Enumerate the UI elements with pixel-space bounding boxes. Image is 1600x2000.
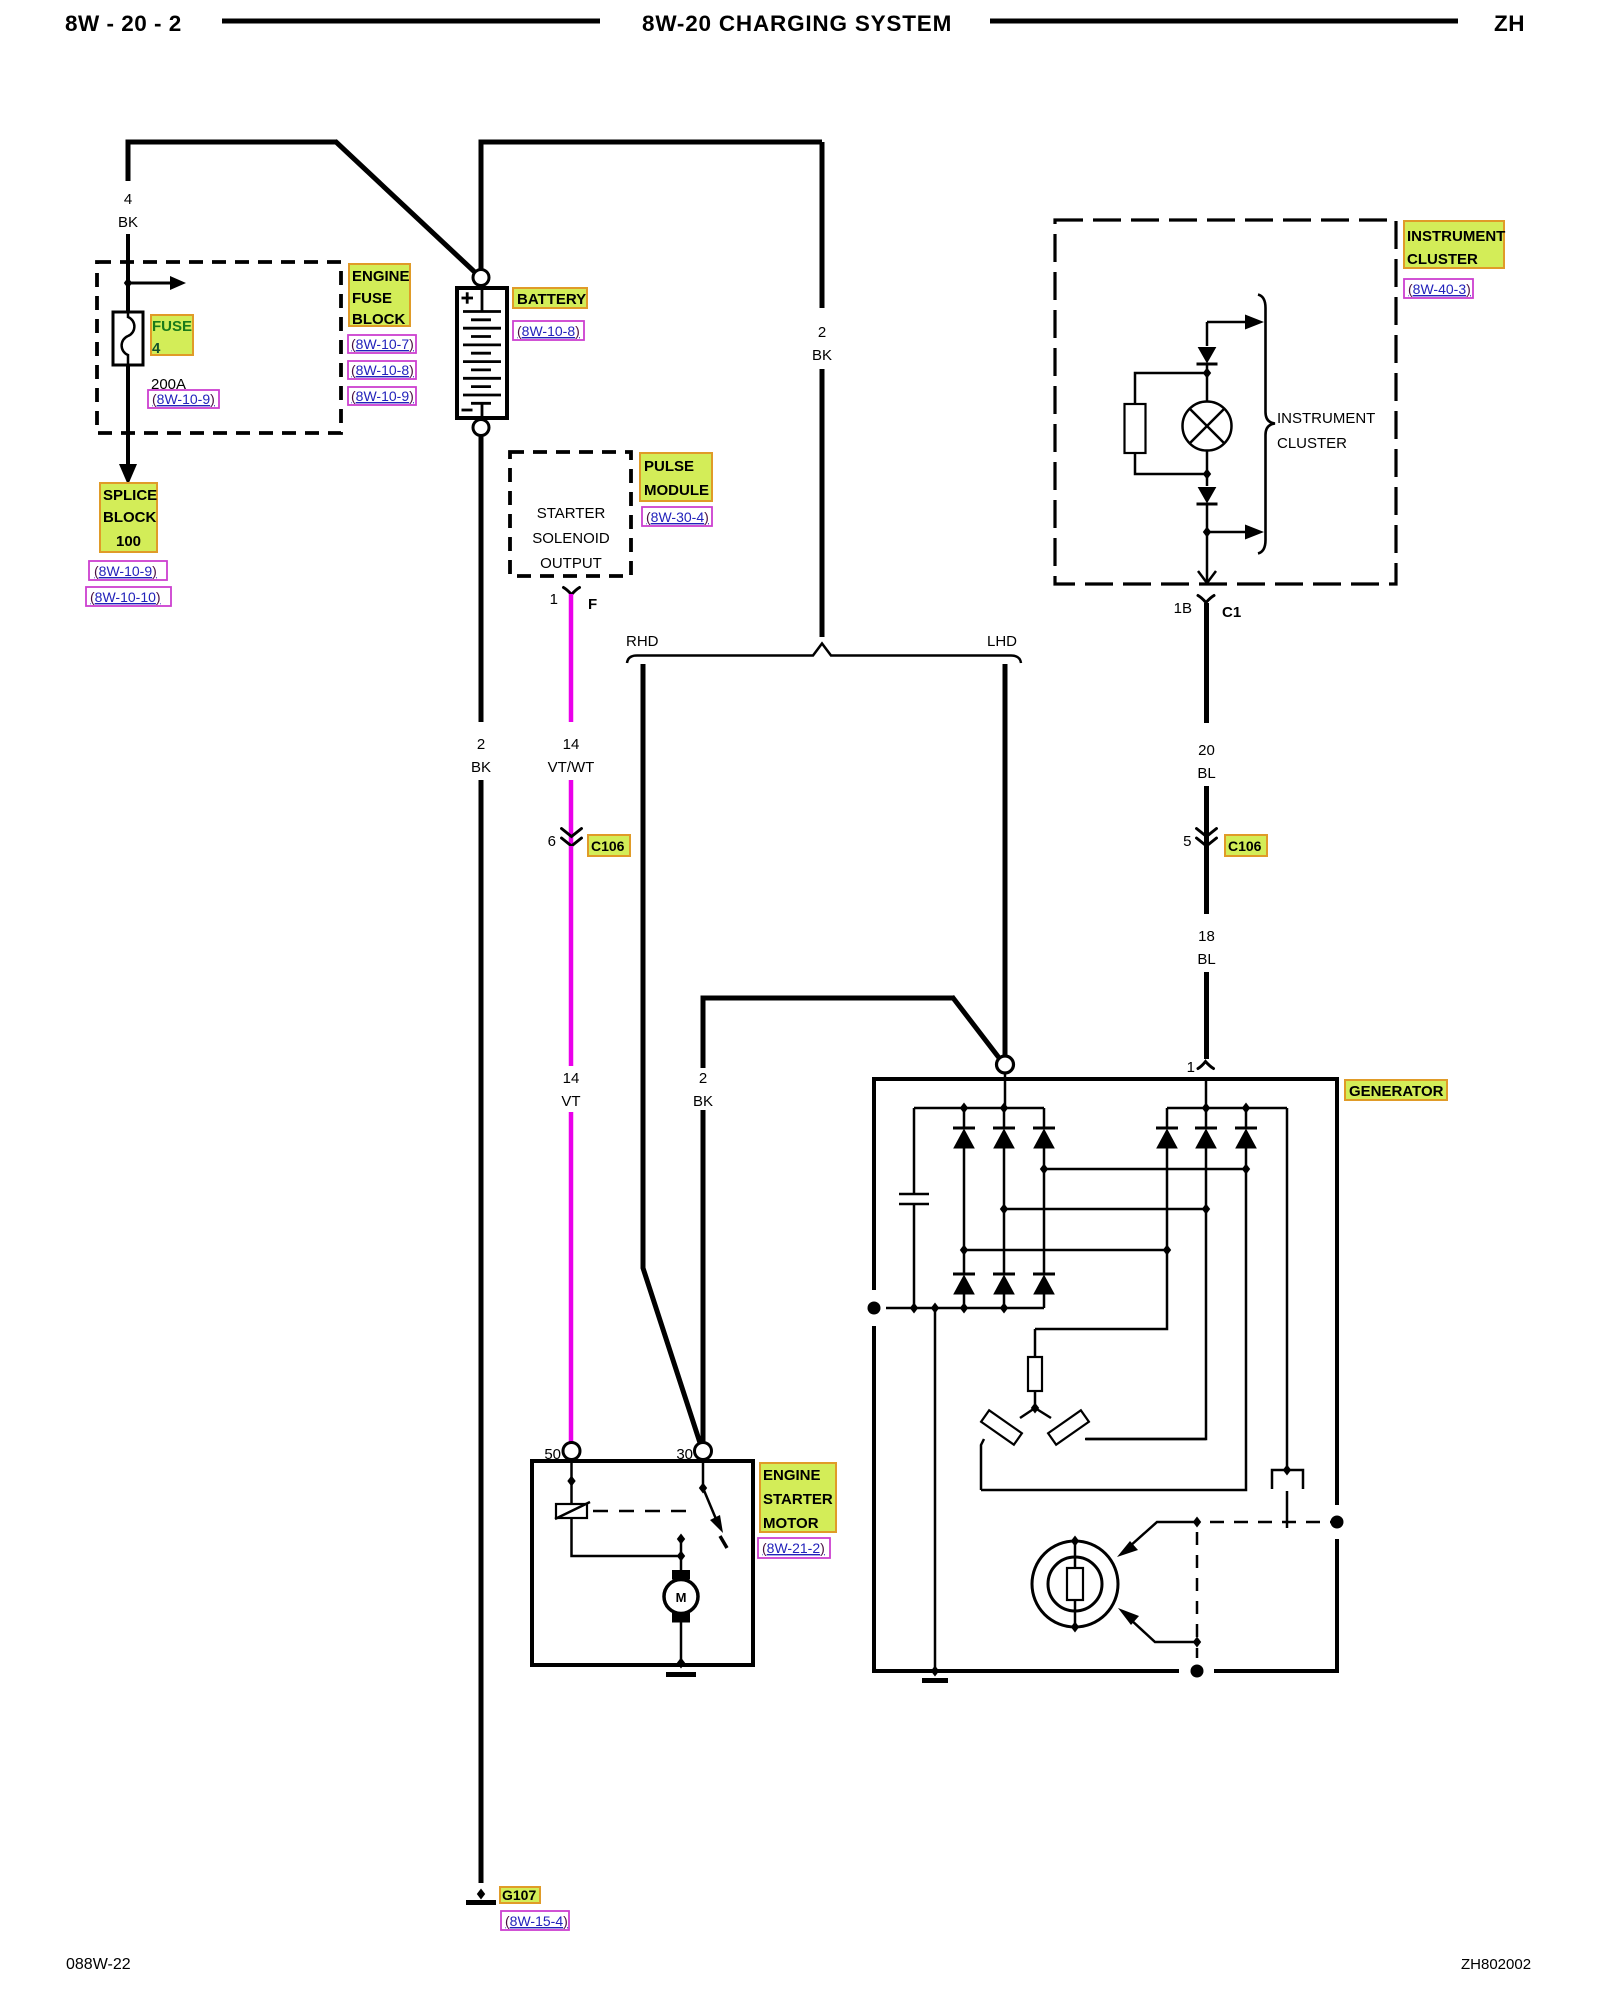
diode main upper 1 [953,1128,975,1148]
stator winding 1 [1020,1408,1035,1418]
svg-text:(8W-10-9): (8W-10-9) [351,388,414,404]
svg-text:088W-22: 088W-22 [66,1956,131,1973]
svg-text:(8W-10-7): (8W-10-7) [351,336,414,352]
connector C106 chevrons [562,829,582,847]
connector C1 symbol [1198,596,1214,603]
svg-text:FUSE: FUSE [352,290,392,307]
wire 2 BK to brace lower [820,369,825,637]
wire 18 BL upper [1204,846,1209,914]
svg-text:VT: VT [561,1093,580,1110]
node phase 1 tap [960,1245,968,1256]
brush upper arrow [1129,1522,1197,1547]
label C106 [588,835,630,856]
svg-text:BLOCK: BLOCK [103,509,156,526]
diode main lower 3 [1033,1274,1055,1294]
svg-text:ENGINE: ENGINE [352,268,410,285]
rectifier ground bus [886,1307,1044,1310]
node phase 2 tap [1000,1204,1008,1215]
pulse module box [510,452,631,576]
svg-text:CLUSTER: CLUSTER [1277,435,1347,452]
wire RHD drop [643,664,702,1449]
svg-text:BK: BK [471,759,491,776]
wire regulator dashed horizontal [1210,1521,1331,1524]
wire phase 1 link [964,1249,1167,1252]
node rotor bottom [1071,1622,1079,1633]
rotor field coil [1032,1541,1118,1627]
wire terminal 30 to switch [702,1459,705,1488]
wire to lamp [1206,364,1209,402]
node phase 3 tap [1040,1164,1048,1175]
node junction [1193,1637,1201,1648]
relay dashed link [593,1510,697,1513]
label FUSE 4 [151,315,193,355]
wire to output [1206,504,1209,582]
wire pin1 to field bus [1205,1080,1208,1108]
link 8W-10-9 splice [89,561,167,580]
svg-text:SPLICE: SPLICE [103,487,157,504]
svg-text:BK: BK [118,214,138,231]
wire motor to ground [680,1622,683,1663]
node junction [677,1551,685,1562]
node splice junction [124,278,132,289]
wire brush contact [1286,1491,1289,1528]
wire 14 VT lower [569,1112,574,1450]
svg-text:(8W-30-4): (8W-30-4) [646,509,709,525]
slip ring bracket [1272,1470,1303,1489]
wire 14 VT/WT upper [569,594,574,722]
svg-text:20: 20 [1198,742,1215,759]
connector C106 chevrons [1197,829,1217,847]
svg-text:M: M [676,1590,687,1605]
wire diode stubs to bus [964,1108,1246,1128]
link 8W-10-9 fuse [148,390,219,408]
svg-text:FUSE: FUSE [152,318,192,335]
stator winding 2 [1035,1408,1051,1418]
svg-text:5: 5 [1183,833,1191,850]
svg-text:C106: C106 [1228,838,1262,854]
node junction [960,1303,968,1314]
wire diagonal to battery [335,141,480,277]
wire 14 VT upper [569,846,574,1066]
GENERATOR [868,1056,1448,1681]
engine starter motor box [532,1461,753,1665]
brush lower arrow [1130,1619,1197,1642]
node junction [910,1303,918,1314]
node junction [1283,1465,1291,1476]
diode main lower 1 [953,1274,975,1294]
capacitor C1 [913,1108,916,1193]
node generator B+ terminal [997,1056,1014,1073]
wire regulator dashed vertical [1196,1532,1199,1637]
resistor R1 [1125,404,1146,453]
label BATTERY [513,288,587,308]
node dot left edge [868,1302,881,1315]
node junction [1202,1204,1210,1215]
CLUSTER WIRE RUN [1174,596,1267,1077]
INSTRUMENT CLUSTER [1055,220,1505,584]
svg-text:STARTER: STARTER [763,1491,833,1508]
svg-text:(8W-10-10): (8W-10-10) [90,589,161,605]
wire below lower diodes [964,1294,1044,1308]
node junction [1193,1517,1201,1528]
svg-text:(8W-10-8): (8W-10-8) [517,323,580,339]
connector pin 1 symbol [564,588,580,595]
stator winding 3 [1034,1329,1037,1357]
wire 18 BL lower [1204,972,1209,1059]
wire phase 3 link [1044,1168,1246,1171]
node dot right edge [1331,1516,1344,1529]
node junction [1203,368,1211,379]
diode field 2 [1195,1128,1217,1148]
FOOTER [66,1956,1531,1973]
svg-text:PULSE: PULSE [644,458,694,475]
wire top bus to LHD [479,140,823,145]
svg-text:14: 14 [563,1070,580,1087]
svg-text:STARTER: STARTER [537,505,606,522]
fuse F4 [113,312,143,365]
node battery positive terminal [473,270,489,286]
diode D1 [1197,348,1218,365]
label G107 [500,1887,540,1903]
BATTERY AREA [457,140,822,1930]
motor M [672,1570,690,1580]
node junction [1000,1103,1008,1114]
svg-text:(8W-10-9): (8W-10-9) [152,391,215,407]
lamp charge indicator [1183,402,1232,451]
svg-text:ZH802002: ZH802002 [1461,1956,1531,1973]
wire phase column 2 [1003,1148,1006,1274]
diode main upper 2 [993,1128,1015,1148]
wire battery positive drop [479,140,484,277]
svg-text:ENGINE: ENGINE [763,1467,821,1484]
label GENERATOR [1345,1080,1447,1100]
HEADER [65,11,1525,36]
brace instrument cluster [1258,295,1275,554]
link 8W-15-4 [501,1911,569,1930]
wire field column B [1086,1148,1206,1439]
svg-text:8W - 20 - 2: 8W - 20 - 2 [65,11,182,36]
svg-text:(8W-10-9): (8W-10-9) [94,563,157,579]
svg-text:INSTRUMENT: INSTRUMENT [1407,228,1505,245]
wire terminal to bus [1004,1073,1007,1108]
wire to splice block [126,365,130,466]
MAGENTA RUN [548,594,630,1450]
svg-text:(8W-15-4): (8W-15-4) [505,1913,568,1929]
wire 14 VT/WT lower [569,780,574,846]
svg-text:C106: C106 [591,838,625,854]
resistor branch [1135,373,1207,474]
svg-text:MODULE: MODULE [644,482,709,499]
svg-text:2: 2 [818,324,826,341]
wire field supply right [1286,1108,1289,1470]
field rectifier top bus [1167,1107,1287,1110]
wire cluster feed top [1206,322,1209,346]
svg-text:OUTPUT: OUTPUT [540,555,602,572]
link 8W-40-3 [1404,279,1473,298]
svg-text:C1: C1 [1222,604,1241,621]
wire relay to motor [572,1518,682,1556]
svg-text:1: 1 [1187,1059,1195,1076]
svg-text:6: 6 [548,833,556,850]
wire branch arrow [128,282,171,285]
node junction [931,1303,939,1314]
generator box [874,1079,1337,1671]
arrow head at box edge [1198,571,1216,583]
svg-text:4: 4 [124,191,132,208]
svg-text:2: 2 [699,1070,707,1087]
link 8W-10-10 splice [86,587,171,606]
node motor feed [677,1534,685,1545]
link 8W-10-7 [348,335,416,353]
label ENGINE FUSE BLOCK [349,264,410,326]
engine fuse block box [97,262,341,433]
brace RHD LHD [627,644,1021,664]
node junction [960,1103,968,1114]
svg-text:2: 2 [477,736,485,753]
svg-text:1: 1 [550,591,558,608]
svg-text:BATTERY: BATTERY [517,291,586,308]
node stator Y center [1031,1403,1039,1414]
wire 4 BK upper segment [126,142,131,181]
svg-text:GENERATOR: GENERATOR [1349,1083,1444,1100]
svg-text:MOTOR: MOTOR [763,1515,819,1532]
svg-text:(8W-40-3): (8W-40-3) [1408,281,1471,297]
wire LHD drop [1003,664,1008,1064]
wire phase 2 link [1004,1208,1206,1211]
svg-text:BL: BL [1197,951,1215,968]
svg-text:8W-20 CHARGING SYSTEM: 8W-20 CHARGING SYSTEM [642,11,952,36]
svg-text:LHD: LHD [987,633,1017,650]
wire starter 30 feed [703,998,954,1450]
wire diagonal to generator terminal [952,997,1003,1064]
svg-text:G107: G107 [502,1887,536,1903]
link 8W-10-8 [348,361,416,379]
wire terminal 50 to relay [570,1459,573,1504]
switch blade [703,1488,716,1519]
link 8W-30-4 [642,507,712,526]
wire field column A [1035,1148,1167,1329]
svg-text:30: 30 [676,1446,693,1463]
label PULSE MODULE [640,453,712,501]
wire dashed to bottom [1196,1648,1199,1666]
node junction [1203,527,1211,538]
svg-text:4: 4 [152,340,161,357]
instrument cluster box [1055,220,1396,584]
arrow to brace bottom [1207,531,1246,534]
header rule left [222,19,600,24]
diode field 3 [1235,1128,1257,1148]
wire phase column 3 [1043,1148,1046,1274]
svg-text:BK: BK [812,347,832,364]
diode field 1 [1156,1128,1178,1148]
BRACE FEEDS [626,142,1021,1450]
relay coil K1 [556,1504,587,1518]
link 8W-21-2 [758,1538,830,1558]
wire battery negative lower [479,780,484,1883]
svg-text:100: 100 [116,533,141,550]
node battery negative terminal [473,420,489,436]
wire ground branch [934,1308,937,1671]
arrow to brace top [1207,321,1246,324]
battery B1 [457,288,507,418]
node rotor top [1071,1536,1079,1547]
node terminal 30 [695,1443,712,1460]
diode main upper 3 [1033,1128,1055,1148]
node switch pivot [699,1483,707,1494]
label ENGINE STARTER MOTOR [760,1463,836,1532]
ground generator internal [922,1678,948,1683]
svg-text:RHD: RHD [626,633,659,650]
wire 2 BK to brace upper [820,142,825,308]
node junction [1163,1245,1171,1256]
wire phase column 1 [963,1148,966,1274]
main rectifier top bus [914,1107,1044,1110]
STARTER [532,1443,836,1675]
TOPLEFT [86,141,480,606]
switch contact stub [720,1536,727,1548]
svg-text:INSTRUMENT: INSTRUMENT [1277,410,1375,427]
svg-text:(8W-21-2): (8W-21-2) [762,1540,825,1556]
svg-text:14: 14 [563,736,580,753]
label C106 [1225,835,1267,856]
svg-text:BL: BL [1197,765,1215,782]
wire 20 BL upper [1204,603,1209,723]
svg-text:50: 50 [544,1446,561,1463]
svg-text:BLOCK: BLOCK [352,311,405,328]
svg-text:VT/WT: VT/WT [548,759,595,776]
svg-text:ZH: ZH [1494,11,1525,36]
wire 20 BL lower [1204,786,1209,846]
wire top feed horizontal [128,142,337,145]
link 8W-10-8 battery [513,321,584,340]
ground G107 [477,1889,485,1900]
node junction [1242,1103,1250,1114]
node junction [1242,1164,1250,1175]
connector generator pin 1 [1198,1062,1214,1069]
diode main lower 2 [993,1274,1015,1294]
wire label gap [694,1068,712,1110]
node dot bottom edge [1191,1665,1204,1678]
label INSTRUMENT CLUSTER [1404,221,1504,268]
node junction bottom [931,1666,939,1677]
svg-text:SOLENOID: SOLENOID [532,530,610,547]
label SPLICE BLOCK 100 [100,483,157,552]
wire lamp to diode [1206,451,1209,487]
header rule right [990,19,1458,24]
node junction [1203,469,1211,480]
node junction [567,1476,575,1487]
svg-text:18: 18 [1198,928,1215,945]
svg-text:(8W-10-8): (8W-10-8) [351,362,414,378]
svg-text:F: F [588,596,597,613]
diode D2 [1197,488,1218,505]
svg-text:CLUSTER: CLUSTER [1407,251,1478,268]
wire field column C [981,1148,1246,1490]
wire to motor brush [680,1556,683,1570]
node junction [677,1658,685,1669]
ground starter [666,1672,696,1677]
wire 4 BK lower segment [126,234,130,313]
link 8W-10-9 [348,387,416,405]
node junction [1000,1303,1008,1314]
PULSE MODULE [510,452,712,613]
wire battery negative upper [479,428,484,722]
svg-text:BK: BK [693,1093,713,1110]
node junction [1202,1103,1210,1114]
node terminal 50 [563,1443,580,1460]
svg-text:1B: 1B [1174,600,1192,617]
